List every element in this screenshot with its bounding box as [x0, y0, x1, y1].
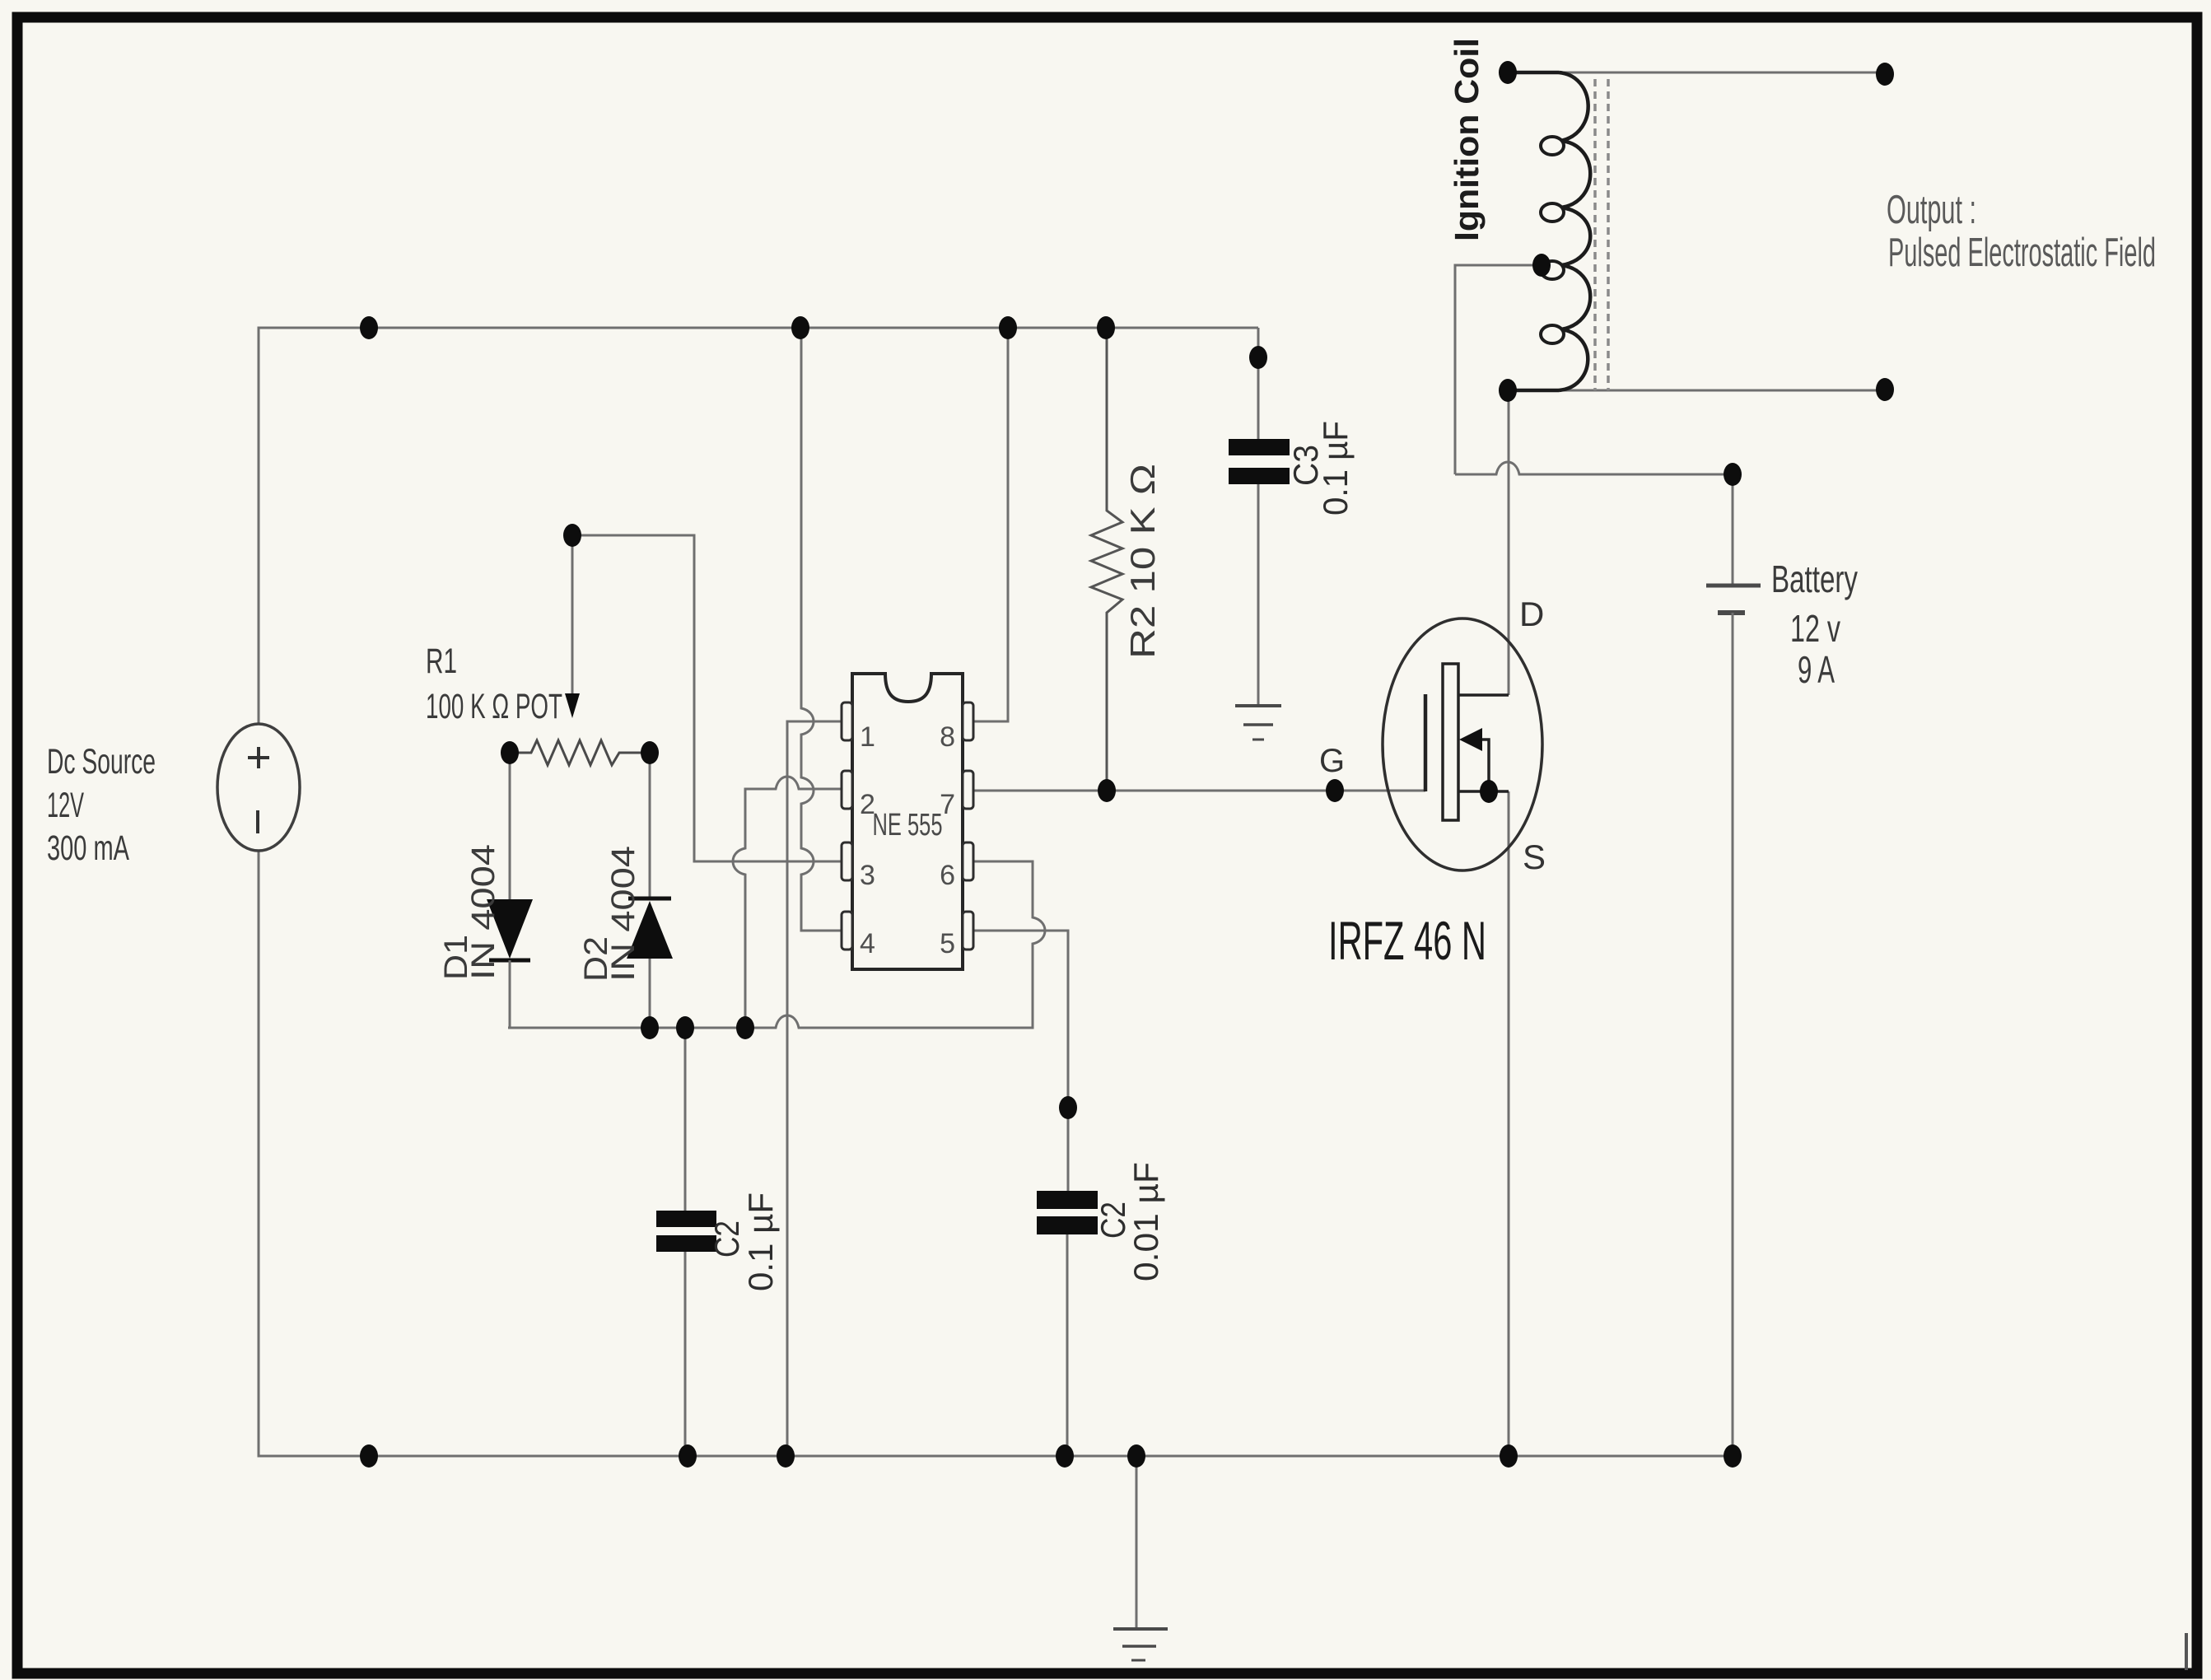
svg-text:IRFZ 46 N: IRFZ 46 N — [1328, 910, 1486, 971]
svg-text:8: 8 — [940, 721, 955, 753]
svg-text:R2 10 K Ω: R2 10 K Ω — [1123, 464, 1162, 659]
svg-text:C2: C2 — [707, 1220, 746, 1258]
svg-text:300 mA: 300 mA — [47, 828, 129, 868]
svg-text:12V: 12V — [47, 786, 84, 825]
svg-text:Ignition Coil: Ignition Coil — [1448, 38, 1486, 241]
svg-text:Output :: Output : — [1887, 188, 1976, 232]
svg-text:1: 1 — [860, 721, 875, 753]
svg-text:G: G — [1319, 743, 1345, 779]
svg-text:2: 2 — [860, 789, 875, 820]
svg-text:IN 4004: IN 4004 — [605, 846, 641, 982]
svg-text:5: 5 — [940, 928, 955, 959]
svg-text:Dc Source: Dc Source — [47, 742, 156, 782]
svg-text:12 v: 12 v — [1790, 607, 1840, 650]
svg-text:S: S — [1523, 838, 1546, 876]
svg-text:D: D — [1519, 595, 1544, 633]
svg-text:NE 555: NE 555 — [873, 808, 943, 842]
svg-text:0.01 µF: 0.01 µF — [1126, 1162, 1165, 1281]
svg-text:3: 3 — [860, 860, 875, 891]
svg-text:100 K Ω POT: 100 K Ω POT — [426, 687, 562, 726]
svg-text:4: 4 — [860, 928, 875, 959]
svg-text:R1: R1 — [426, 642, 457, 681]
svg-text:0.1 µF: 0.1 µF — [1316, 421, 1355, 516]
svg-text:IN 4004: IN 4004 — [465, 844, 501, 980]
svg-text:Pulsed Electrostatic Field: Pulsed Electrostatic Field — [1888, 231, 2156, 275]
svg-text:6: 6 — [940, 860, 955, 891]
svg-text:0.1 µF: 0.1 µF — [741, 1192, 780, 1291]
svg-text:Battery: Battery — [1771, 558, 1858, 600]
svg-text:9 A: 9 A — [1798, 648, 1835, 691]
svg-text:7: 7 — [940, 789, 955, 820]
